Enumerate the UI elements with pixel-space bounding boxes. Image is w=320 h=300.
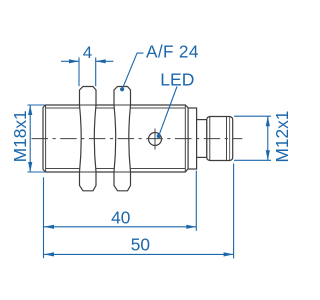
dimension M18x1: dimension line with arrows [28,105,32,172]
connector M12 plug outline [207,117,233,161]
svg-text:LED: LED [160,69,194,89]
dimension M12x1: extension line bottom [234,159,271,161]
thread root line top [46,107,186,109]
connector right chamfer line [229,117,231,160]
svg-text:M12x1: M12x1 [272,111,292,163]
connector thread line [226,117,228,161]
barrel left chamfer line [45,105,47,172]
connector left chamfer line [209,117,211,161]
dimension 50: extension line right [233,163,235,258]
end cap [188,108,197,169]
svg-text:4: 4 [83,43,92,62]
LED window circle [149,133,162,146]
LED center mark vertical [154,129,156,150]
nut 1 [80,87,97,191]
dimension 4: line left tail with arrow [61,59,79,63]
neck [197,120,207,158]
dimension 4: extension line left [78,58,80,87]
dimension M12x1: extension line top [234,115,271,117]
dimension 50: dimension line with arrows [44,252,234,256]
barrel M18 body outline [43,105,188,172]
svg-text:40: 40 [111,208,130,228]
dimension M18x1: extension line top [28,104,46,106]
nut 2 [114,87,131,191]
dimension 40: extension line right [195,171,197,231]
svg-text:M18x1: M18x1 [10,110,30,162]
barrel right chamfer line [184,105,186,172]
centerline axis [32,138,243,140]
dimension M18x1: extension line bottom [28,171,46,173]
thread root line bottom [46,168,186,170]
svg-text:50: 50 [131,235,150,255]
svg-text:A/F 24: A/F 24 [146,41,199,61]
dimension 4: line right tail with arrow [96,59,114,63]
dimension 40: dimension line with arrows [44,225,196,229]
dimension 4: extension line right [95,58,97,87]
leader A/F 24 [120,53,144,91]
leader LED [157,87,177,139]
dimension M12x1: dimension line with arrows [266,116,270,160]
dimension 40: extension line left [43,177,45,258]
